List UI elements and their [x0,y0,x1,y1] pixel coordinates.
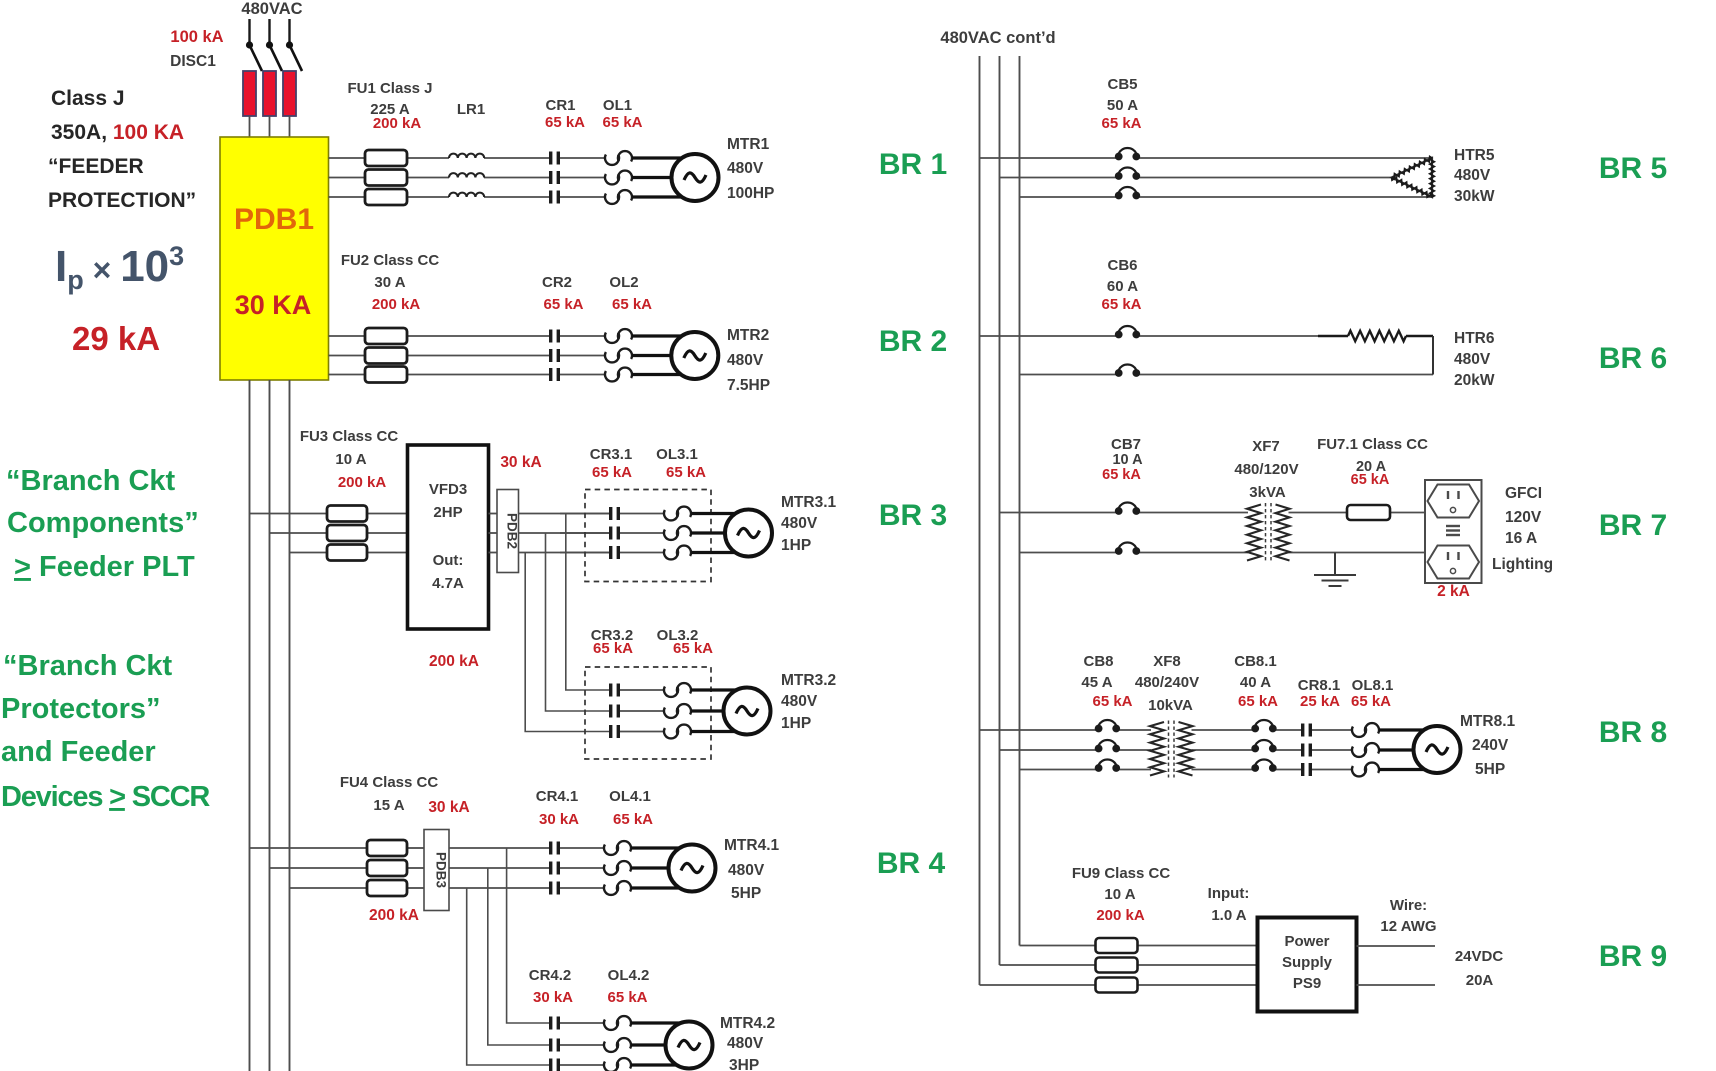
svg-text:65 kA: 65 kA [1092,693,1132,710]
svg-text:FU1 Class J: FU1 Class J [347,80,432,97]
fuse FU1 [365,150,407,166]
svg-text:BR 2: BR 2 [879,325,947,358]
svg-text:FU3 Class CC: FU3 Class CC [300,428,399,445]
svg-text:10 A: 10 A [1112,452,1143,468]
wire BR8 [980,730,1353,770]
svg-text:OL3.1: OL3.1 [656,446,698,463]
overload OL8.1 [1352,727,1366,737]
svg-text:Input:: Input: [1208,885,1250,902]
svg-text:65 kA: 65 kA [1101,115,1141,132]
svg-text:65 kA: 65 kA [1101,296,1141,313]
wire [250,116,290,137]
svg-text:Class J: Class J [51,87,125,110]
wire CR3.2-OL3.2 [620,690,664,732]
svg-text:CR8.1: CR8.1 [1298,677,1341,694]
motor MTR3.1 [725,510,772,557]
svg-text:200 kA: 200 kA [372,296,421,313]
overload OL3.2 [664,687,678,697]
svg-text:> Feeder PLT: > Feeder PLT [14,551,195,583]
wire BR4.1 [449,848,549,888]
svg-text:1.0 A: 1.0 A [1211,907,1246,924]
svg-text:2 kA: 2 kA [1437,583,1470,600]
svg-text:100HP: 100HP [727,185,774,202]
wire right bus [980,56,1020,985]
svg-text:25 kA: 25 kA [1300,693,1340,710]
svg-text:65 kA: 65 kA [1238,693,1278,710]
svg-text:3HP: 3HP [729,1057,759,1071]
svg-text:29 kA: 29 kA [72,320,160,357]
wire motor leads MTR8.1 [1379,730,1437,770]
breaker CB5 [1115,148,1140,160]
svg-text:20kW: 20kW [1454,372,1495,389]
svg-text:HTR6: HTR6 [1454,330,1495,347]
svg-text:CR4.2: CR4.2 [529,967,572,984]
svg-text:XF7: XF7 [1252,438,1280,455]
contactor CR1 [549,152,560,165]
disconnect DISC1 [246,41,302,71]
power distribution block PDB3 [424,830,449,911]
svg-text:65 kA: 65 kA [666,464,706,481]
wire BR4 taps [250,848,425,888]
svg-text:FU7.1 Class CC: FU7.1 Class CC [1317,436,1428,453]
wire left bus [250,380,290,1071]
svg-text:PDB3: PDB3 [434,852,449,889]
transformer XF8 [1150,722,1164,776]
svg-text:BR 6: BR 6 [1599,342,1667,375]
svg-text:16 A: 16 A [1505,530,1537,547]
svg-text:MTR4.1: MTR4.1 [724,837,780,854]
svg-text:OL4.2: OL4.2 [608,967,650,984]
label Class J header [48,87,196,212]
svg-text:MTR1: MTR1 [727,136,770,153]
svg-text:7.5HP: 7.5HP [727,377,770,394]
power distribution block PDB1 [220,137,329,380]
svg-text:XF8: XF8 [1153,653,1181,670]
wire CR4.1-OL4.1 [560,848,604,888]
svg-text:10 A: 10 A [1104,886,1135,903]
svg-text:BR 7: BR 7 [1599,509,1667,542]
svg-text:“FEEDER: “FEEDER [48,155,144,178]
svg-text:480V: 480V [781,515,818,532]
svg-text:24VDC: 24VDC [1455,948,1504,965]
svg-text:65 kA: 65 kA [545,114,585,131]
svg-text:FU4 Class CC: FU4 Class CC [340,774,439,791]
heater HTR5 delta [1392,158,1432,197]
svg-text:480V: 480V [1454,167,1491,184]
svg-text:200 kA: 200 kA [338,474,387,491]
overload OL4.2 [604,1020,618,1030]
svg-text:480V: 480V [781,693,818,710]
svg-text:MTR8.1: MTR8.1 [1460,713,1516,730]
fuse DISC1 (3 red cartridges) [243,71,296,116]
motor MTR1 [672,154,719,201]
power supply PS9 [1258,918,1357,1012]
svg-text:CB7: CB7 [1111,436,1141,453]
ground [1314,553,1356,587]
fuse FU7.1 [1347,505,1390,520]
svg-text:CB6: CB6 [1107,257,1137,274]
svg-text:2HP: 2HP [433,504,462,521]
overload OL1 [605,155,619,165]
svg-text:65 kA: 65 kA [1102,467,1141,483]
svg-text:Devices > SCCR: Devices > SCCR [1,781,210,813]
svg-text:480V: 480V [728,862,765,879]
svg-text:65 kA: 65 kA [673,640,713,657]
motor MTR4.1 [669,845,716,892]
wire BR3.1 [519,514,610,553]
svg-text:200 kA: 200 kA [369,907,419,924]
svg-text:and Feeder: and Feeder [1,736,156,768]
wire drops to BR4.2 [467,848,549,1065]
wire BR7 [1000,513,1426,553]
svg-text:Lighting: Lighting [1492,556,1553,573]
svg-text:480V: 480V [1454,351,1491,368]
breaker CB8.1 [1251,720,1276,732]
wire CR3.1-OL3.1 [620,514,664,553]
wire motor leads MTR3.1 [691,514,749,553]
svg-text:3kVA: 3kVA [1249,484,1286,501]
svg-text:240V: 240V [1472,737,1509,754]
svg-text:MTR3.1: MTR3.1 [781,494,837,511]
wire BR2 [329,336,606,375]
overload OL3.1 [664,510,678,520]
motor MTR3.2 [724,688,771,735]
svg-text:30 KA: 30 KA [235,290,312,320]
svg-text:OL4.1: OL4.1 [609,788,651,805]
svg-text:DISC1: DISC1 [170,53,216,70]
contactor CR4.2 [549,1017,560,1030]
label Branch Ckt Components >= Feeder PLT [6,465,199,583]
svg-text:45 A: 45 A [1081,674,1112,691]
svg-text:GFCI: GFCI [1505,485,1542,502]
contactor CR4.1 [549,842,560,855]
svg-text:CB8.1: CB8.1 [1234,653,1277,670]
svg-text:65 kA: 65 kA [607,989,647,1006]
breaker CB6 [1115,326,1140,338]
svg-text:200 kA: 200 kA [373,115,422,132]
svg-text:480V: 480V [727,352,764,369]
wire BR3 taps [250,514,408,553]
transformer XF7 [1247,505,1261,561]
contactor CR3.2 [609,684,620,697]
svg-text:OL8.1: OL8.1 [1352,677,1394,694]
svg-text:FU9 Class CC: FU9 Class CC [1072,865,1171,882]
svg-text:30 A: 30 A [374,274,405,291]
svg-text:MTR2: MTR2 [727,327,769,344]
wire BR9 [980,946,1258,986]
motor MTR8.1 [1414,726,1461,773]
svg-text:480V: 480V [727,160,764,177]
wire VFD3 out [489,514,498,553]
overload OL4.1 [604,845,618,855]
svg-text:65 kA: 65 kA [1351,693,1391,710]
wire [250,19,290,45]
svg-text:30kW: 30kW [1454,188,1495,205]
svg-text:CB8: CB8 [1083,653,1113,670]
svg-text:LR1: LR1 [457,101,485,118]
svg-text:30 kA: 30 kA [533,989,573,1006]
svg-text:10 A: 10 A [335,451,366,468]
svg-text:120V: 120V [1505,509,1542,526]
svg-text:30 kA: 30 kA [500,454,541,471]
svg-text:20A: 20A [1466,972,1494,989]
svg-text:BR 1: BR 1 [879,148,947,181]
svg-text:15 A: 15 A [373,797,404,814]
svg-text:Out:: Out: [433,552,464,569]
motor MTR2 [671,332,718,379]
svg-text:Wire:: Wire: [1390,897,1427,914]
wire motor leads MTR1 [632,158,695,197]
svg-text:MTR4.2: MTR4.2 [720,1015,775,1032]
heater HTR6 [1318,335,1348,338]
contactor CR8.1 [1301,724,1312,737]
contactor CR3.1 [609,507,620,520]
overload OL2 [605,333,619,343]
svg-text:Supply: Supply [1282,954,1333,971]
svg-text:12 AWG: 12 AWG [1380,918,1436,935]
wire BR1 [329,158,606,197]
fuse FU4 [367,840,407,856]
svg-text:1HP: 1HP [781,537,811,554]
svg-text:MTR3.2: MTR3.2 [781,672,836,689]
breaker CB8 [1095,720,1120,732]
svg-text:65 kA: 65 kA [613,811,653,828]
svg-text:480VAC cont’d: 480VAC cont’d [940,29,1055,47]
svg-text:50 A: 50 A [1107,97,1138,114]
contactor CR2 [549,330,560,343]
enclosure dashed box BR3.1 [585,490,711,582]
svg-text:VFD3: VFD3 [429,481,467,498]
drive VFD3 [408,445,489,629]
svg-text:5HP: 5HP [1475,761,1505,778]
wire CR4.2-OL4.2 [560,1023,604,1065]
svg-text:BR 4: BR 4 [877,847,946,880]
svg-text:30 kA: 30 kA [539,811,579,828]
wire BR6 [980,336,1434,375]
receptacle GFCI [1425,480,1482,583]
wire PS9 outputs [1357,946,1436,985]
svg-text:CR1: CR1 [545,97,575,114]
svg-text:480/120V: 480/120V [1234,461,1298,478]
svg-text:60 A: 60 A [1107,278,1138,295]
svg-text:BR 9: BR 9 [1599,940,1667,973]
svg-text:4.7A: 4.7A [432,575,464,592]
svg-text:480VAC: 480VAC [241,0,302,18]
svg-text:BR 3: BR 3 [879,499,947,532]
svg-text:CR2: CR2 [542,274,572,291]
svg-text:350A, 100 KA: 350A, 100 KA [51,121,184,144]
wire motor leads MTR2 [632,336,695,375]
svg-text:FU2 Class CC: FU2 Class CC [341,252,440,269]
fuse FU3 [327,506,367,522]
svg-text:PS9: PS9 [1293,975,1321,992]
svg-text:Protectors”: Protectors” [1,693,161,725]
motor MTR4.2 [666,1022,713,1069]
svg-text:5HP: 5HP [731,885,761,902]
svg-text:PDB1: PDB1 [234,203,314,236]
svg-text:Power: Power [1284,933,1329,950]
wire drops to BR3.2 [525,514,609,732]
svg-text:480/240V: 480/240V [1135,674,1199,691]
fuse FU9 [1096,938,1138,953]
svg-text:10kVA: 10kVA [1148,697,1193,714]
svg-text:65 kA: 65 kA [602,114,642,131]
svg-text:40 A: 40 A [1240,674,1271,691]
svg-text:PDB2: PDB2 [505,513,520,549]
svg-text:65 kA: 65 kA [1351,472,1390,488]
svg-text:OL2: OL2 [609,274,638,291]
label Branch Ckt Protectors and Feeder Devices >= SCCR [1,650,210,813]
fuse FU2 [365,328,407,344]
svg-text:“Branch Ckt: “Branch Ckt [3,650,173,682]
svg-text:OL1: OL1 [603,97,632,114]
svg-text:65 kA: 65 kA [543,296,583,313]
enclosure dashed box BR3.2 [585,667,711,759]
svg-text:100 kA: 100 kA [170,28,223,46]
svg-text:“Branch Ckt: “Branch Ckt [6,465,176,497]
svg-text:200 kA: 200 kA [429,653,479,670]
svg-text:CR4.1: CR4.1 [536,788,579,805]
svg-text:HTR5: HTR5 [1454,147,1495,164]
wire motor leads MTR4.2 [631,1023,689,1065]
wire BR5 [980,158,1433,197]
wire motor leads MTR3.2 [691,690,747,732]
svg-text:BR 5: BR 5 [1599,152,1667,185]
svg-text:PROTECTION”: PROTECTION” [48,189,196,212]
svg-text:65 kA: 65 kA [612,296,652,313]
svg-text:480V: 480V [727,1035,764,1052]
wire motor leads MTR4.1 [631,848,692,888]
svg-text:65 kA: 65 kA [593,640,633,657]
breaker CB7 [1115,503,1140,515]
svg-text:Components”: Components” [7,507,199,539]
reactor LR1 [449,154,484,158]
power distribution block PDB2 [497,490,519,573]
svg-text:200 kA: 200 kA [1096,907,1145,924]
svg-text:CB5: CB5 [1107,76,1137,93]
svg-text:CR3.1: CR3.1 [590,446,633,463]
svg-text:1HP: 1HP [781,715,811,732]
svg-text:BR 8: BR 8 [1599,716,1667,749]
svg-text:65 kA: 65 kA [592,464,632,481]
svg-text:30 kA: 30 kA [428,799,469,816]
